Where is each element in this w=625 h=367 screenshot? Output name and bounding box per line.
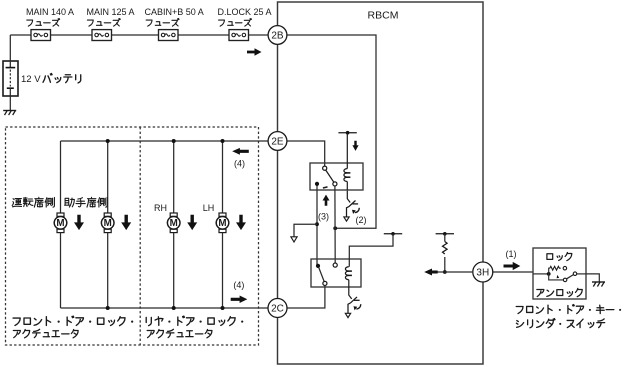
svg-text:M: M <box>56 218 64 229</box>
svg-text:(4): (4) <box>233 280 244 290</box>
svg-text:LH: LH <box>203 203 215 213</box>
svg-text:2E: 2E <box>271 137 284 148</box>
svg-text:2B: 2B <box>271 31 284 42</box>
svg-text:RBCM: RBCM <box>368 10 399 22</box>
svg-text:3H: 3H <box>476 268 489 279</box>
svg-text:2C: 2C <box>271 304 284 315</box>
svg-text:MAIN 140 A: MAIN 140 A <box>26 7 74 17</box>
svg-text:M: M <box>170 218 178 229</box>
svg-text:MAIN 125 A: MAIN 125 A <box>87 7 135 17</box>
svg-text:M: M <box>104 218 112 229</box>
svg-text:(2): (2) <box>356 215 367 225</box>
svg-text:M: M <box>218 218 226 229</box>
svg-text:CABIN+B 50 A: CABIN+B 50 A <box>145 7 204 17</box>
svg-text:12 V: 12 V <box>21 74 41 85</box>
svg-text:D.LOCK 25 A: D.LOCK 25 A <box>218 7 272 17</box>
svg-text:(4): (4) <box>234 159 245 169</box>
svg-text:RH: RH <box>154 203 167 213</box>
svg-text:(3): (3) <box>318 212 329 222</box>
svg-text:(1): (1) <box>506 249 517 259</box>
